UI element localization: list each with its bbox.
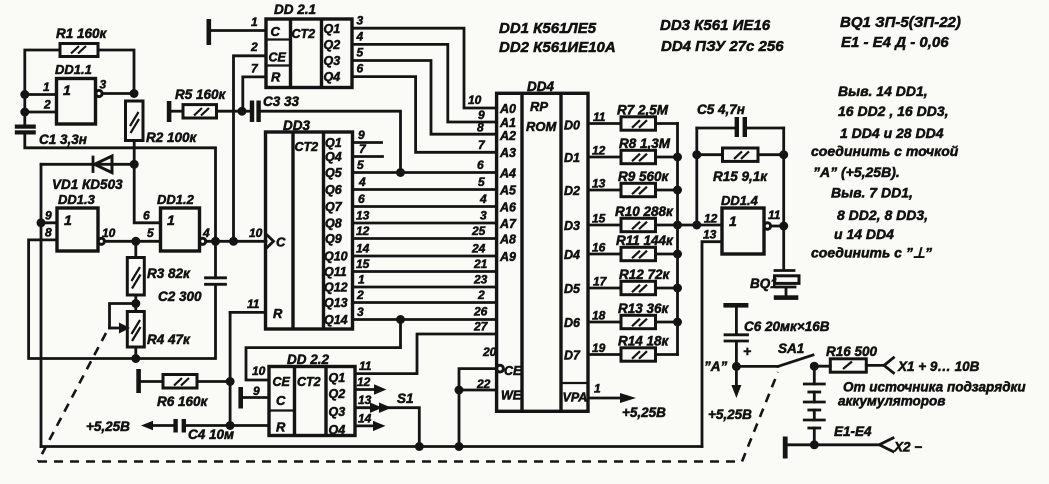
resistor R5	[171, 87, 242, 118]
node pin 9 junction	[37, 218, 46, 227]
svg-text:9: 9	[45, 209, 52, 223]
wire DD2.1 Q3 pin5 to DD4 A2	[352, 61, 497, 135]
wire D5 pin17 to R12	[588, 287, 621, 290]
svg-text:Q3: Q3	[324, 54, 341, 68]
svg-text:A0: A0	[499, 102, 516, 116]
svg-text:+5,25В: +5,25В	[86, 419, 130, 434]
svg-text:R3 82к: R3 82к	[147, 266, 191, 281]
svg-text:R11 144к: R11 144к	[616, 233, 674, 248]
svg-text:Q5: Q5	[325, 166, 343, 180]
svg-text:6: 6	[143, 209, 150, 223]
wire DD1.4 output pin 11	[771, 225, 784, 228]
svg-text:A5: A5	[499, 184, 517, 198]
connector X1	[884, 358, 980, 374]
wire bottom rail to C2	[136, 285, 216, 359]
common-rail terminal bar at DD2.2 pin 9	[238, 387, 243, 409]
wire DD2.1 pin 7 R down to R5/C3 node	[243, 77, 266, 111]
svg-text:R2 100к: R2 100к	[146, 130, 198, 145]
svg-text:ВQ1 ЗП-5(ЗП-22): ВQ1 ЗП-5(ЗП-22)	[840, 14, 961, 31]
wire DD2.2 R pin	[230, 424, 269, 427]
svg-text:1: 1	[63, 82, 71, 98]
wire DD1.2 pin 6	[134, 164, 160, 223]
svg-text:WE: WE	[501, 389, 522, 403]
node "A"	[732, 362, 741, 371]
svg-text:Q13: Q13	[324, 296, 348, 310]
svg-text:+5,25В: +5,25В	[622, 405, 666, 420]
resistor R1	[56, 26, 108, 57]
wire DD3 Q9 pin12 to DD4 A8 pin25	[353, 237, 497, 240]
svg-text:16: 16	[592, 241, 606, 255]
svg-text:и 14 DD4: и 14 DD4	[834, 226, 894, 242]
svg-text:С1 3,3н: С1 3,3н	[39, 132, 87, 147]
svg-text:R5 160к: R5 160к	[175, 87, 227, 102]
svg-text:11: 11	[247, 297, 260, 311]
wire DD3 Q1 stub pin9	[353, 141, 382, 144]
wire reset net vertical (DD3 R / R6 / C4 / DD2.2 R)	[229, 312, 232, 425]
svg-text:Е1 - Е4 Д - 0,06: Е1 - Е4 Д - 0,06	[841, 34, 949, 51]
svg-text:4: 4	[479, 192, 487, 206]
wire DD3 pin 11 R	[230, 311, 265, 314]
wire +5.25V arrow to C4	[86, 419, 174, 434]
wire R12 to bus	[656, 287, 678, 290]
svg-text:Q1: Q1	[324, 22, 341, 36]
wire DD3 Q4 stub pin7	[353, 155, 383, 158]
resistor R7	[617, 103, 669, 131]
node DD2.1 CE vertical junction	[229, 237, 238, 246]
wire DD3 Q13 pin2 to DD4 pin2	[353, 301, 497, 304]
svg-text:DD 2.2: DD 2.2	[287, 352, 330, 367]
svg-text:A4: A4	[499, 167, 516, 181]
svg-text:R7 2,5М: R7 2,5М	[617, 103, 669, 118]
svg-text:DD2 К561ИЕ10А: DD2 К561ИЕ10А	[499, 39, 616, 56]
capacitor C5	[697, 102, 784, 137]
node output junction	[779, 222, 788, 231]
wire DD2.2 Q2 pin12 output arrow	[355, 388, 376, 391]
common-rail terminal bar at R5	[167, 101, 172, 122]
wire D7 pin19 to R14	[588, 353, 621, 356]
node C4 reset junction	[226, 421, 235, 430]
svg-text:R8 1,3М: R8 1,3М	[619, 136, 671, 151]
svg-text:4: 4	[202, 226, 210, 240]
wire D4 pin16 to R11	[588, 253, 621, 256]
svg-text:11: 11	[768, 208, 781, 222]
svg-text:A2: A2	[499, 129, 516, 143]
node pin1 junction	[20, 90, 29, 99]
diode VD1 KD503	[41, 156, 134, 192]
svg-text:CT2: CT2	[295, 140, 319, 154]
ROM DD4	[497, 79, 588, 411]
svg-text:3: 3	[480, 209, 487, 223]
wire bus tap to DD1.4 pin 12	[678, 224, 723, 227]
svg-text:+5,25В: +5,25В	[708, 407, 752, 422]
wire R10 to bus	[656, 224, 678, 227]
svg-text:25: 25	[471, 224, 486, 238]
svg-text:Q1: Q1	[325, 136, 342, 150]
svg-text:D6: D6	[564, 316, 581, 330]
wire R4 bottom	[134, 347, 137, 359]
svg-text:R15 9,1к: R15 9,1к	[713, 169, 768, 184]
svg-text:DD1.4: DD1.4	[721, 193, 759, 208]
svg-text:5: 5	[357, 158, 364, 172]
wire R7 to bus	[656, 122, 678, 125]
svg-text:+: +	[743, 343, 751, 359]
node R6 reset net junction	[226, 377, 235, 386]
svg-text:R: R	[273, 306, 283, 321]
svg-text:Q8: Q8	[325, 217, 342, 231]
svg-text:D2: D2	[564, 184, 580, 198]
svg-text:2: 2	[356, 288, 364, 302]
wire Q14 node to DD2.2 CE pin10	[246, 320, 401, 381]
wire D6 pin18 to R13	[588, 321, 621, 324]
svg-text:A6: A6	[499, 201, 517, 215]
svg-text:13: 13	[592, 177, 606, 191]
wire left long vertical from VD1 to bottom rail	[40, 164, 43, 446]
svg-text:DD3 К561 ИЕ16: DD3 К561 ИЕ16	[660, 17, 771, 34]
svg-text:1 DD4 и 28 DD4: 1 DD4 и 28 DD4	[840, 125, 944, 141]
resistor R9	[618, 169, 670, 197]
wire R1 left lead	[25, 50, 60, 125]
svg-text:RP: RP	[530, 99, 548, 114]
wire D1 pin12 to R8	[588, 156, 621, 159]
node R15/C5 left	[692, 150, 701, 159]
svg-text:1: 1	[43, 80, 50, 94]
svg-text:Q2: Q2	[324, 38, 341, 52]
wire R1 right lead to node	[98, 50, 134, 94]
resistor R8	[619, 136, 671, 164]
svg-text:12: 12	[592, 144, 606, 158]
svg-text:Q1: Q1	[329, 371, 346, 385]
svg-text:С4 10м: С4 10м	[188, 427, 234, 442]
counter DD2.1	[266, 2, 352, 88]
capacitor C1	[15, 125, 87, 148]
svg-text:”А” (+5,25В).: ”А” (+5,25В).	[813, 164, 900, 180]
node VD1/R2 junction	[130, 160, 139, 169]
resistor R2	[126, 101, 198, 145]
svg-text:S1: S1	[397, 391, 414, 406]
svg-text:CE: CE	[504, 364, 522, 378]
wire C5/R15 left leg to pin 12	[695, 128, 698, 225]
svg-text:От источника подзарядки: От источника подзарядки	[843, 380, 1026, 395]
svg-text:2: 2	[43, 98, 51, 112]
svg-text:14: 14	[356, 242, 370, 256]
resistor R15	[697, 148, 784, 184]
op-amp U1: logic gate DD1.1	[55, 62, 102, 124]
DD4 WE input	[459, 389, 497, 392]
svg-text:1: 1	[64, 212, 72, 228]
svg-text:15: 15	[356, 257, 370, 271]
wire R11 to bus	[656, 253, 678, 256]
piezo sounder BQ1	[750, 226, 799, 300]
svg-text:D1: D1	[564, 151, 580, 165]
svg-text:DD1 К561ЛЕ5: DD1 К561ЛЕ5	[499, 20, 597, 37]
svg-text:15: 15	[592, 211, 606, 225]
common-rail terminal bar above C6	[723, 303, 748, 308]
switch SA1	[736, 341, 813, 366]
svg-text:Q9: Q9	[325, 232, 342, 246]
svg-text:C: C	[276, 393, 286, 408]
svg-text:аккумуляторов: аккумуляторов	[838, 394, 945, 409]
svg-text:12: 12	[357, 375, 371, 389]
svg-text:A3: A3	[499, 146, 516, 160]
wire DD3 Q10 pin14 to DD4 A9 pin24	[353, 255, 497, 258]
resistor R13	[618, 301, 670, 329]
svg-text:DD1.2: DD1.2	[157, 192, 195, 207]
logic gate DD1.3	[57, 192, 104, 251]
counter DD2.2	[269, 352, 355, 437]
svg-text:CT2: CT2	[297, 375, 321, 389]
svg-text:Q4: Q4	[325, 150, 342, 164]
svg-text:A7: A7	[499, 217, 517, 231]
svg-text:D4: D4	[564, 248, 580, 262]
svg-text:22: 22	[476, 377, 491, 391]
wire C5/R15 right leg to output node	[782, 128, 785, 226]
wire DD1.3 pin 9	[41, 221, 57, 224]
svg-text:23: 23	[473, 273, 488, 287]
svg-text:C: C	[276, 235, 286, 250]
svg-text:С3 33: С3 33	[263, 94, 300, 109]
svg-text:Выв. 14 DD1,: Выв. 14 DD1,	[838, 83, 928, 99]
svg-text:CT2: CT2	[292, 27, 316, 41]
svg-text:9: 9	[253, 384, 260, 398]
svg-text:10: 10	[249, 226, 263, 240]
svg-text:соединить с точкой: соединить с точкой	[811, 143, 959, 159]
svg-text:13: 13	[358, 393, 372, 407]
wire DD2.2 Q3 pin13 to S1	[355, 406, 372, 409]
wire D3 pin15 to R10	[588, 224, 621, 227]
wire DD2.1 pin 1 C	[211, 29, 266, 32]
svg-text:1: 1	[167, 212, 175, 228]
svg-text:”А”: ”А”	[704, 359, 727, 374]
resistor R11	[616, 233, 674, 261]
svg-text:DD 2.1: DD 2.1	[274, 2, 316, 17]
svg-text:Q12: Q12	[324, 281, 348, 295]
node R3 top junction	[131, 237, 140, 246]
svg-text:R16 500: R16 500	[826, 344, 878, 359]
svg-text:R6 160к: R6 160к	[157, 394, 209, 409]
node CE/WE rail junction	[455, 442, 464, 451]
resistor R12	[619, 267, 671, 295]
svg-text:R12 72к: R12 72к	[619, 267, 671, 282]
wire R13 to bus	[656, 321, 678, 324]
wire R8 to bus	[656, 156, 678, 159]
capacitor C3	[242, 94, 300, 122]
svg-text:11: 11	[359, 359, 372, 373]
wire R14 to bus	[656, 353, 678, 356]
svg-text:D5: D5	[564, 282, 581, 296]
svg-text:Q11: Q11	[324, 265, 347, 279]
node R4 bottom rail junction	[131, 354, 140, 363]
svg-text:6: 6	[358, 192, 365, 206]
svg-text:DD3: DD3	[283, 118, 310, 133]
wire DD1.4 pin 13 to bottom rail	[702, 242, 722, 447]
DD4 CE input with bubble	[497, 365, 504, 372]
wire DD1.1 output pin 3	[102, 92, 134, 95]
wire DD1.3 pin 8	[29, 240, 136, 359]
wire DD2.1 Q1 pin3 to DD4 A0	[352, 28, 497, 108]
svg-text:11: 11	[593, 110, 606, 124]
svg-text:Q2: Q2	[329, 387, 346, 401]
resistor R10	[615, 204, 674, 232]
node C3/Q5 junction	[396, 168, 405, 177]
wire DD2.1 pin 2 CE down to clock line	[234, 56, 267, 242]
svg-text:13: 13	[356, 209, 370, 223]
svg-text:Q7: Q7	[325, 200, 343, 214]
svg-text:16 DD2 , 16 DD3,: 16 DD2 , 16 DD3,	[838, 103, 949, 119]
svg-text:13: 13	[703, 228, 717, 242]
wire DD1.1 pin 1	[25, 93, 57, 96]
svg-text:20: 20	[482, 345, 497, 359]
wire R4 wiper loop	[110, 304, 136, 329]
svg-text:24: 24	[471, 242, 486, 256]
svg-text:5: 5	[147, 226, 154, 240]
svg-text:Q10: Q10	[324, 250, 348, 264]
svg-text:5: 5	[357, 46, 364, 60]
svg-text:10: 10	[252, 364, 266, 378]
svg-text:2: 2	[250, 40, 258, 54]
svg-text:Х2 −: Х2 −	[893, 440, 922, 455]
wire R9 to bus	[656, 189, 678, 192]
node R15/C5 right	[779, 150, 788, 159]
wire DD2.1 Q4 pin6 to DD4 A3	[352, 77, 497, 153]
wire DD2.2 pin 9 C	[243, 396, 269, 399]
wire DD1.3 output 10 to DD1.2 pin 5	[104, 240, 160, 243]
svg-text:Q6: Q6	[325, 183, 343, 197]
resistor R16	[814, 344, 884, 372]
note block	[811, 83, 959, 261]
wire D0 pin11 to R7	[588, 122, 621, 125]
svg-text:3: 3	[357, 305, 364, 319]
logic gate DD1.4	[721, 193, 771, 254]
svg-text:VPA: VPA	[563, 391, 588, 405]
svg-text:Е1-Е4: Е1-Е4	[834, 424, 872, 439]
wire bottom common rail	[41, 445, 702, 448]
svg-text:17: 17	[593, 275, 608, 289]
resistor R3	[127, 241, 191, 295]
svg-text:VD1 КD503: VD1 КD503	[52, 177, 123, 192]
svg-text:R: R	[271, 70, 281, 85]
svg-text:18: 18	[592, 309, 606, 323]
svg-text:A9: A9	[499, 250, 516, 264]
svg-text:10: 10	[102, 226, 116, 240]
wire C1 bottom to corner	[25, 135, 216, 242]
svg-text:12: 12	[356, 224, 370, 238]
svg-text:CE: CE	[269, 51, 287, 65]
svg-text:Выв. 7 DD1,: Выв. 7 DD1,	[831, 185, 913, 201]
node R3/R4 junction	[134, 295, 137, 312]
svg-text:C: C	[271, 24, 281, 39]
node pin2 junction	[20, 108, 29, 117]
wire DD3 Q6 pin4 to DD4 A5 pin5	[353, 188, 497, 191]
svg-text:Q4: Q4	[324, 70, 341, 84]
svg-text:BQ1: BQ1	[750, 276, 778, 291]
svg-text:D7: D7	[564, 349, 581, 363]
svg-text:R9 560к: R9 560к	[618, 169, 670, 184]
node battery to X2 wire	[810, 440, 819, 449]
node SA1 fixed contact	[810, 362, 819, 371]
wire DAC summing bus	[676, 124, 679, 355]
wire DD2.1 Q2 pin4 to DD4 A1	[352, 44, 497, 122]
svg-text:соединить с ”⊥”: соединить с ”⊥”	[811, 245, 932, 261]
battery E1-E4	[804, 366, 872, 445]
svg-text:26: 26	[473, 305, 488, 319]
capacitor C6 (electrolytic)	[725, 308, 830, 367]
node CE/WE junction	[455, 386, 464, 395]
common-rail terminal bar at DD2.1 pin 1	[207, 19, 212, 45]
svg-text:14: 14	[358, 412, 372, 426]
svg-text:SA1: SA1	[778, 341, 804, 356]
wire DD3 Q8 pin13 to DD4 A7 pin3	[353, 222, 497, 225]
svg-text:DD4: DD4	[527, 79, 554, 94]
counter DD3	[266, 118, 353, 329]
svg-text:С2 300: С2 300	[158, 289, 202, 304]
wire node A down arrow +5.25V	[735, 366, 738, 387]
svg-text:10: 10	[468, 93, 482, 107]
svg-text:R13 36к: R13 36к	[618, 301, 670, 316]
svg-text:1: 1	[594, 382, 601, 396]
svg-text:A1: A1	[499, 116, 516, 130]
svg-text:Q3: Q3	[329, 405, 346, 419]
wire DD1.2 output 4 to DD3 C	[206, 240, 266, 243]
svg-text:27: 27	[473, 320, 489, 334]
wire DD3 Q14 pin3 to DD4 pin26	[353, 318, 497, 321]
svg-text:Q4: Q4	[329, 423, 346, 437]
node output 3 junction	[130, 89, 139, 98]
svg-text:4: 4	[356, 30, 364, 44]
svg-text:D3: D3	[564, 219, 580, 233]
svg-text:R1 160к: R1 160к	[56, 26, 108, 41]
capacitor C4	[173, 419, 234, 442]
mechanical link dashed R4 to SA1	[38, 333, 106, 462]
svg-text:DD1.3: DD1.3	[58, 192, 96, 207]
svg-text:8: 8	[477, 121, 484, 135]
resistor R14	[618, 334, 670, 362]
wire X2 line	[788, 443, 880, 446]
svg-text:21: 21	[473, 257, 488, 271]
wire DD3 Q7 pin6 to DD4 A6 pin4	[353, 205, 497, 208]
wire D2 pin13 to R9	[588, 189, 621, 192]
svg-text:CE: CE	[273, 375, 291, 389]
svg-text:D0: D0	[564, 119, 580, 133]
node R5/C3/pin7 junction	[238, 107, 247, 116]
wire DD4 VPA pin1 to +5.25V	[588, 397, 622, 400]
svg-text:R10 288к: R10 288к	[615, 204, 674, 219]
svg-text:A8: A8	[499, 233, 516, 247]
svg-text:R14 18к: R14 18к	[618, 334, 670, 349]
svg-text:6: 6	[357, 62, 364, 76]
svg-text:1: 1	[729, 213, 737, 229]
svg-text:8: 8	[45, 226, 52, 240]
node C2 top junction	[211, 237, 220, 246]
wire DD2.2 Q1 pin11 to DD4 pin27	[355, 334, 497, 374]
resistor R6	[136, 369, 230, 409]
wire R2 bottom lead	[133, 141, 136, 165]
wire DD3 Q11 pin15 to DD4 pin21	[353, 270, 497, 273]
svg-text:4: 4	[358, 175, 366, 189]
svg-text:5: 5	[478, 175, 485, 189]
node Q14 junction to DD2.2 CE	[396, 315, 405, 324]
wire DD2.2 Q4 pin14 output arrow	[355, 424, 375, 427]
svg-text:DD4 ПЗУ 27с 256: DD4 ПЗУ 27с 256	[661, 38, 784, 55]
svg-text:2: 2	[477, 288, 485, 302]
node S1 to bottom rail	[415, 442, 424, 451]
wire DD3 Q5 pin5 to DD4 A4 pin6	[353, 171, 497, 174]
svg-text:Х1 + 9… 10В: Х1 + 9… 10В	[897, 359, 980, 374]
svg-text:ROM: ROM	[526, 119, 558, 134]
svg-text:R: R	[276, 420, 286, 435]
svg-text:1: 1	[358, 273, 365, 287]
svg-text:9: 9	[358, 128, 365, 142]
svg-text:С5 4,7н: С5 4,7н	[697, 102, 745, 117]
